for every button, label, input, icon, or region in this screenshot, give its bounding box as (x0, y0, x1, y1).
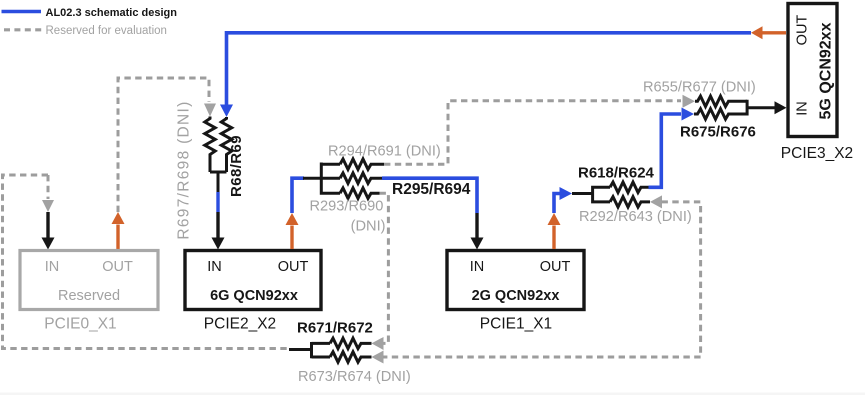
resistor R671/R672 (330, 338, 372, 348)
resistor R618/R624 (610, 182, 649, 192)
resistor R655/R677 (695, 96, 747, 106)
legend reserved dashed line (4, 28, 44, 31)
svg-text:IN: IN (795, 101, 811, 116)
dashed wire R294 over to R655 (384, 101, 681, 164)
resistor R293/R690 (340, 188, 380, 198)
box PCIE2_X2 (185, 251, 321, 310)
box PCIE1_X1 (447, 251, 584, 310)
svg-text:PCIE0_X1: PCIE0_X1 (44, 316, 116, 333)
wire black R618 bank input bar and leads (572, 186, 610, 204)
svg-text:AL02.3 schematic design: AL02.3 schematic design (46, 7, 178, 19)
wire R68 pair join bracket (210, 172, 227, 192)
resistor R673/R674 (330, 352, 372, 362)
svg-text:IN: IN (45, 259, 60, 275)
svg-text:5G QCN92xx: 5G QCN92xx (818, 22, 835, 119)
svg-text:OUT: OUT (102, 259, 133, 275)
gray arrowhead into R671 (372, 337, 384, 350)
svg-text:2G QCN92xx: 2G QCN92xx (472, 288, 560, 304)
gray arrowhead into PCIE0 IN (42, 200, 54, 212)
blue arrowhead into R675 (682, 108, 695, 121)
dashed wire bottom net long run (383, 356, 701, 359)
svg-text:R673/R674 (DNI): R673/R674 (DNI) (298, 369, 411, 385)
svg-text:IN: IN (207, 259, 222, 275)
svg-text:(DNI): (DNI) (351, 219, 386, 235)
svg-text:R294/R691 (DNI): R294/R691 (DNI) (328, 144, 441, 160)
black arrow into PCIE0 IN (46, 212, 49, 238)
wire blue R618 up to R675 (649, 114, 682, 187)
svg-text:6G QCN92xx: 6G QCN92xx (210, 288, 298, 304)
wire blue R295 to PCIE1 IN (382, 178, 477, 213)
wire black bank input bar and leads (303, 163, 340, 195)
svg-text:Reserved for evaluation: Reserved for evaluation (46, 25, 167, 37)
orange arrow PCIE1 OUT (552, 226, 555, 250)
bottom faint divider (0, 393, 865, 395)
svg-text:R292/R643 (DNI): R292/R643 (DNI) (579, 209, 692, 225)
orange arrow out of PCIE3 OUT (762, 31, 786, 34)
arrowhead blue into R68/R69 (220, 105, 233, 118)
resistor R295/R694 (340, 173, 382, 183)
wire blue net PCIE3 OUT to R68/R69 (227, 33, 752, 106)
orange arrow PCIE0 OUT (116, 225, 119, 250)
svg-text:Reserved: Reserved (58, 288, 120, 304)
wire black R655 bank right bar and output (747, 100, 775, 116)
dashed wire R292 to bottom net (662, 202, 701, 357)
gray arrowhead into R673 (372, 351, 384, 364)
dashed wire left loop to PCIE0 IN (3, 175, 290, 349)
resistor R697/R698 (205, 117, 215, 173)
svg-text:OUT: OUT (278, 259, 309, 275)
gray arrowhead into R655 (683, 95, 696, 108)
svg-text:R697/R698 (DNI): R697/R698 (DNI) (176, 100, 193, 239)
blue arrowhead into R618 bank (560, 187, 573, 200)
svg-text:PCIE1_X1: PCIE1_X1 (480, 316, 552, 333)
svg-text:R618/R624: R618/R624 (578, 165, 655, 182)
orange arrow PCIE2 OUT (290, 226, 293, 250)
svg-text:R68/R69: R68/R69 (228, 135, 245, 197)
wire blue segment below R68 (216, 192, 219, 212)
resistor R675/R676 (694, 109, 747, 119)
wire blue PCIE2 OUT to resistor bank (292, 178, 304, 213)
svg-text:R675/R676: R675/R676 (680, 124, 756, 141)
svg-text:R655/R677 (DNI): R655/R677 (DNI) (643, 80, 756, 96)
svg-text:IN: IN (470, 259, 485, 275)
resistor R68/R69 (221, 117, 231, 172)
dashed wire PCIE0 OUT up and over to R697 (118, 78, 209, 212)
dashed stub above PCIE0 IN (47, 175, 50, 199)
resistor R292/R643 (610, 197, 650, 207)
svg-text:OUT: OUT (540, 259, 571, 275)
svg-text:OUT: OUT (795, 15, 811, 46)
svg-text:R295/R694: R295/R694 (392, 181, 471, 198)
svg-text:PCIE3_X2: PCIE3_X2 (781, 145, 853, 162)
svg-text:PCIE2_X2: PCIE2_X2 (204, 316, 276, 333)
box PCIE0_X1 (Reserved) (20, 251, 158, 310)
black arrow into PCIE3 IN (775, 101, 787, 114)
gray arrowhead into R697 (204, 104, 216, 117)
box PCIE3_X2 (788, 4, 837, 137)
svg-text:R293/R690: R293/R690 (310, 199, 384, 215)
legend AL02.3 blue line (2, 10, 42, 14)
dashed wire R293 down to R671 top arrow (380, 193, 389, 343)
resistor R294/R691 (340, 159, 384, 169)
black arrow into PCIE2 IN (216, 212, 219, 238)
wire blue PCIE1 OUT up to R618 (554, 194, 560, 214)
black arrow into PCIE1 IN (475, 213, 478, 238)
svg-text:R671/R672: R671/R672 (297, 320, 373, 337)
gray arrowhead into R292 (650, 195, 662, 208)
wire black R671 bank input bar and leads (289, 342, 330, 358)
